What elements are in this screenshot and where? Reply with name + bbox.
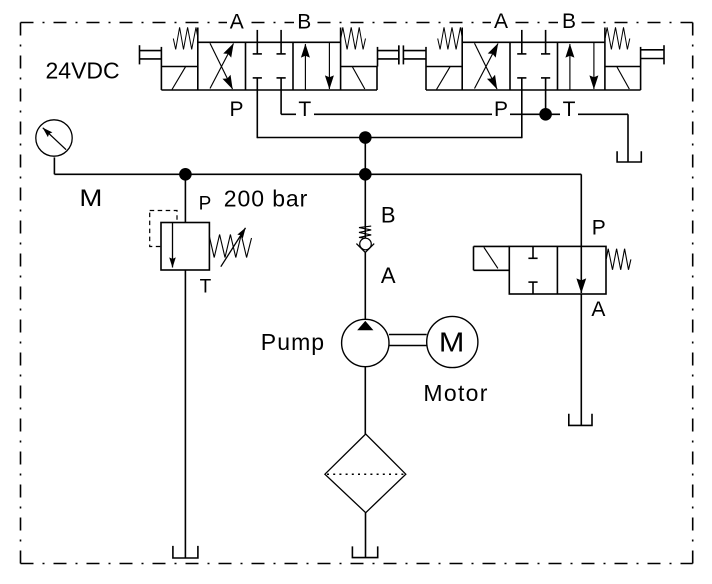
- svg-text:B: B: [297, 11, 311, 34]
- svg-text:P: P: [229, 98, 243, 121]
- svg-text:A: A: [494, 10, 508, 33]
- svg-text:Pump: Pump: [261, 329, 324, 355]
- svg-text:Motor: Motor: [423, 380, 487, 406]
- svg-text:P: P: [494, 98, 508, 121]
- svg-text:A: A: [381, 263, 396, 288]
- svg-text:T: T: [200, 277, 212, 298]
- svg-text:B: B: [381, 203, 396, 228]
- svg-text:M: M: [79, 185, 102, 212]
- svg-text:24VDC: 24VDC: [46, 58, 120, 84]
- svg-text:T: T: [563, 98, 576, 121]
- svg-text:A: A: [591, 298, 605, 321]
- svg-text:P: P: [199, 193, 212, 214]
- svg-text:B: B: [562, 10, 576, 33]
- svg-text:T: T: [298, 98, 311, 121]
- svg-text:A: A: [230, 11, 244, 34]
- svg-text:P: P: [592, 217, 606, 240]
- svg-text:M: M: [439, 326, 465, 357]
- svg-text:200 bar: 200 bar: [224, 186, 308, 212]
